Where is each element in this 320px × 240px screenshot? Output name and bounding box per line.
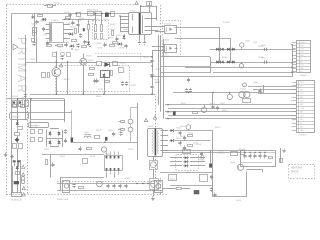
svg-text:+: + <box>123 133 125 135</box>
svg-text:R6305: R6305 <box>96 130 101 132</box>
svg-text:D6203: D6203 <box>222 57 227 59</box>
junction left col <box>17 98 18 99</box>
junction dots mid <box>67 61 68 62</box>
warning triangle T6002 b <box>153 116 156 119</box>
svg-text:C6021: C6021 <box>143 57 148 59</box>
svg-text:R6020: R6020 <box>64 79 69 81</box>
junction dots cap row <box>244 152 245 153</box>
resistor R6045 <box>112 31 114 36</box>
resistor R6033 <box>75 29 77 34</box>
wire y57 <box>97 56 152 58</box>
varistor Z6002 <box>39 130 43 134</box>
transistor Q6104 <box>150 179 159 190</box>
capacitor C6035 <box>83 41 86 43</box>
svg-text:C6033: C6033 <box>70 27 75 29</box>
wire q pair <box>130 108 132 120</box>
svg-text:H+: H+ <box>300 123 302 125</box>
capacitor C6121 <box>200 153 203 155</box>
svg-text:D6300: D6300 <box>44 149 49 151</box>
transistor Q6107 <box>128 119 133 124</box>
svg-text:GND: GND <box>300 104 304 106</box>
svg-text:C6008: C6008 <box>76 20 81 22</box>
wire bottom mid <box>60 177 104 179</box>
svg-text:12: 12 <box>291 123 293 125</box>
resistor input <box>18 127 23 130</box>
ground left mid <box>25 93 27 95</box>
wire T1 stub5 <box>120 31 129 33</box>
wire y94 snubber bottom <box>30 94 155 96</box>
resistor R6022 <box>113 62 118 66</box>
wire y155 left <box>42 154 104 156</box>
svg-text:L6301: L6301 <box>253 82 258 84</box>
svg-text:PC6002: PC6002 <box>223 22 230 24</box>
wire y897 <box>253 89 296 91</box>
capacitor C6103 <box>183 137 186 139</box>
transistor Q6105 <box>97 181 103 187</box>
svg-text:L6201: L6201 <box>253 42 258 44</box>
ground right top <box>284 149 286 151</box>
warning triangle Q6002 <box>60 64 63 67</box>
capacitor C6036 <box>103 44 106 46</box>
components above Q6301 <box>231 152 238 156</box>
transformer T6001 core <box>139 13 141 34</box>
capacitor C6043 <box>32 42 35 44</box>
svg-text:D6034: D6034 <box>119 48 124 50</box>
resistor R6016 <box>48 73 50 78</box>
svg-text:C6045: C6045 <box>74 50 79 52</box>
dashed line bottom sub-circuit <box>57 181 160 183</box>
svg-text:E4001 AC-IN: E4001 AC-IN <box>11 199 23 202</box>
svg-text:10: 10 <box>292 71 294 73</box>
svg-text:Q6301: Q6301 <box>230 162 235 164</box>
wire second rail <box>25 35 27 120</box>
resistor R6004 <box>32 39 35 42</box>
diode pair D6201 D6202 <box>216 48 219 51</box>
resistor R6023 <box>89 74 94 76</box>
svg-text:D6006: D6006 <box>86 56 91 58</box>
dashed box rectifier diodes D6101-D6103 <box>176 155 199 171</box>
wire y862 <box>248 86 296 88</box>
dark box bottom <box>194 190 200 194</box>
wire y1964 <box>212 196 247 198</box>
cap row x265 <box>263 155 266 157</box>
relay contacts cluster <box>13 101 17 107</box>
small box right <box>280 159 283 163</box>
wire above transformer <box>140 6 142 13</box>
wire y1884 <box>162 188 176 190</box>
svg-text:R6025: R6025 <box>96 96 101 98</box>
transistor Q6108 <box>128 127 133 132</box>
transistor Q6201 <box>227 94 232 99</box>
regulator IC6201 double circle <box>239 91 245 97</box>
svg-text:+15V: +15V <box>300 49 305 51</box>
svg-text:S2055: S2055 <box>236 200 241 202</box>
dark component <box>209 163 212 167</box>
wire long y1186 <box>165 118 296 120</box>
svg-text:C6203: C6203 <box>258 46 263 48</box>
svg-text:3: 3 <box>292 48 293 50</box>
dark diamond <box>15 138 20 143</box>
svg-text:T6002: T6002 <box>148 126 153 128</box>
capacitor C6102 <box>178 142 181 144</box>
wire y172 <box>160 172 213 174</box>
resistor R6031 <box>66 17 71 19</box>
svg-text:X6001: X6001 <box>90 156 95 158</box>
capacitor C6015 <box>93 80 96 82</box>
transistor Q6103 <box>150 161 158 170</box>
diode circle D6211 <box>186 125 191 130</box>
svg-text:CN6004: CN6004 <box>300 75 308 77</box>
svg-text:IC6201: IC6201 <box>241 88 247 90</box>
resistor R6041 <box>38 15 43 17</box>
resistor R6001 <box>77 13 81 17</box>
svg-text:9: 9 <box>292 68 293 70</box>
svg-text:C6014: C6014 <box>98 89 103 91</box>
startup resistor R6009 <box>101 25 103 32</box>
socket SK6001 <box>155 181 163 193</box>
capacitor C6211 <box>185 89 188 91</box>
svg-text:STBY: STBY <box>300 82 304 84</box>
diode pair D6207 D6208 <box>227 61 230 64</box>
svg-text:C6307: C6307 <box>128 149 133 151</box>
resistor R6111 <box>79 187 84 189</box>
svg-text:IC PIN: IC PIN <box>42 35 48 37</box>
wire y77 <box>150 76 292 78</box>
junctions x292 <box>291 44 292 45</box>
capacitor C6101 <box>178 132 181 134</box>
capacitor C6115 <box>124 185 127 187</box>
wire bottom buses <box>57 183 155 185</box>
resistor R6214 <box>193 112 198 114</box>
capacitor C6042 <box>35 21 38 23</box>
wire long y1117 <box>165 111 296 113</box>
svg-text:IC6001: IC6001 <box>51 20 59 22</box>
resistor R6005 <box>47 45 52 47</box>
junction y925 <box>229 92 230 93</box>
resistor R6042 <box>33 31 35 36</box>
capacitor C6133 <box>213 194 216 196</box>
fuse F6001 <box>48 5 53 8</box>
bridge diode D6301 <box>49 132 52 135</box>
capacitor C6023 electrolytic <box>150 86 153 88</box>
resistor R6306 <box>87 148 92 150</box>
svg-text:D6307: D6307 <box>108 130 113 132</box>
junction dots bottom <box>136 183 137 184</box>
diode D6101 area <box>171 129 174 132</box>
svg-text:L6201: L6201 <box>245 41 250 43</box>
left col small comps <box>13 105 17 108</box>
transformer T6002 core <box>155 129 157 156</box>
resistor R6112 <box>46 160 48 165</box>
resistor R6017 <box>90 68 95 70</box>
empty box relay area <box>31 101 65 120</box>
wire mid y66 <box>160 66 210 68</box>
wire y722 <box>213 72 296 74</box>
wire y931 <box>258 93 296 95</box>
svg-text:14: 14 <box>291 130 293 132</box>
diode input a <box>16 122 19 125</box>
wire mid y73 <box>160 72 210 74</box>
capacitor C6012 <box>121 82 124 84</box>
resistor R6021 <box>97 62 102 66</box>
AC plug circles <box>21 177 25 181</box>
svg-text:GND: GND <box>300 89 304 91</box>
component pair <box>13 144 17 149</box>
resistor R6046 <box>113 42 118 44</box>
primary section dashed border top <box>6 4 134 6</box>
dashed line AC input box <box>27 99 29 195</box>
capacitor C6213 <box>258 90 261 92</box>
transformer T6001 primary winding <box>132 14 134 16</box>
junction <box>64 19 65 20</box>
warning triangle in3 <box>22 186 25 189</box>
ground input b <box>12 155 14 157</box>
ground below transformer <box>139 40 141 42</box>
diode D6043 <box>123 36 126 39</box>
capacitor C6022 electrolytic <box>150 74 153 76</box>
svg-text:H+: H+ <box>300 58 302 60</box>
resistor R6131 <box>169 175 177 181</box>
arrow symbol left <box>13 44 18 50</box>
wire mid y57 <box>160 56 210 58</box>
svg-text:+: + <box>154 88 156 90</box>
warning triangle in1 <box>22 165 25 168</box>
wire long y1151 <box>168 115 296 117</box>
capacitor C6203 <box>264 48 266 51</box>
diode D6034 <box>119 43 122 46</box>
warning triangle in2 <box>22 173 25 176</box>
capacitor C6011 <box>95 80 98 82</box>
svg-text:SG6001 PWB: SG6001 PWB <box>57 199 69 201</box>
svg-text:7: 7 <box>292 61 293 63</box>
svg-text:C6204: C6204 <box>258 57 263 59</box>
capacitor C6306 <box>78 148 81 150</box>
wire y925 <box>173 92 263 94</box>
wire v36 <box>36 27 38 62</box>
transistor Q6002 big <box>52 68 61 77</box>
svg-text:+5V: +5V <box>300 86 303 88</box>
capacitor C6301 <box>64 130 67 132</box>
wire y153 <box>162 152 240 154</box>
warning triangle T6002 a <box>144 118 147 121</box>
diode D6210 dark <box>173 111 176 115</box>
degauss coil box <box>10 113 29 120</box>
diode D6103 <box>185 156 188 159</box>
wire y671 <box>185 67 296 69</box>
svg-text:5: 5 <box>292 55 293 57</box>
varistor Z6003 <box>31 138 35 142</box>
wire rail2 secondary <box>210 62 296 64</box>
resistor R6303 <box>243 99 251 103</box>
optocoupler PC6002 <box>165 45 177 53</box>
svg-text:DEGAUSS: DEGAUSS <box>11 115 20 118</box>
transformer T6001 secondary winding <box>141 15 143 17</box>
diode D6033 <box>87 42 90 45</box>
dashed box startup resistors <box>93 21 109 40</box>
varistor Z6001 <box>31 130 35 134</box>
diode D6002 <box>83 28 85 31</box>
wire v2634 <box>263 85 265 93</box>
resistor R6301 <box>95 136 100 139</box>
resistor R6102 <box>188 145 193 147</box>
wire T1 stub2 <box>120 19 129 21</box>
IC6002 <box>105 156 123 171</box>
wire mid drops <box>88 30 90 40</box>
capacitor C6002 <box>68 14 71 16</box>
svg-text:D6104: D6104 <box>200 160 205 162</box>
resistor R6012 <box>95 12 102 16</box>
transformer T6002 taps <box>160 130 168 132</box>
thermistor TH6001 <box>15 133 20 136</box>
wire q6201 v <box>229 93 231 95</box>
svg-text:F6001: F6001 <box>54 3 61 5</box>
resistor R6132 <box>177 188 182 190</box>
warning triangle top <box>135 1 138 4</box>
wire v67 <box>67 62 69 94</box>
primary section dashed border left <box>6 5 8 195</box>
svg-text:C6104: C6104 <box>193 143 198 145</box>
svg-text:GND: GND <box>155 82 160 84</box>
junction top rail <box>75 13 76 14</box>
isolation dashed box around optocouplers <box>163 21 181 57</box>
wire stub v56 top <box>56 52 58 63</box>
wire v152 <box>152 51 154 58</box>
capacitor C6305 polar <box>119 132 122 134</box>
dashed box heatsink parts <box>289 165 315 179</box>
wire long y1048 <box>165 104 296 106</box>
svg-text:CN6003: CN6003 <box>299 135 307 137</box>
wire opto2 right <box>175 38 231 40</box>
wire long y1082 <box>168 108 296 110</box>
svg-text:R6202: R6202 <box>220 103 225 105</box>
component lower <box>16 172 20 175</box>
choke L6001 <box>84 136 91 138</box>
IC6001 PWM controller <box>50 23 64 43</box>
capacitor C6113 <box>112 185 115 187</box>
svg-text:IC6002: IC6002 <box>105 154 111 156</box>
varistor Z6004 <box>39 138 43 142</box>
capacitor C6214 <box>211 106 214 108</box>
svg-text:RL6001: RL6001 <box>12 96 18 98</box>
svg-text:R6002 R6012: R6002 R6012 <box>87 9 99 11</box>
capacitor C6132 <box>210 188 213 190</box>
capacitor C6021 electrolytic <box>150 60 153 62</box>
svg-text:PC6001: PC6001 <box>165 24 172 26</box>
main cap C6303 <box>71 138 74 143</box>
svg-text:GND: GND <box>300 119 304 121</box>
svg-text:+: + <box>116 134 118 136</box>
capacitor C6034 <box>79 34 82 36</box>
transformer T6002 outline <box>148 129 163 157</box>
svg-text:ABL: ABL <box>300 60 303 63</box>
svg-text:R6043: R6043 <box>64 42 69 44</box>
transistor Q6106 <box>101 147 106 152</box>
wire v2106 <box>210 150 212 163</box>
svg-text:C6022: C6022 <box>155 69 160 71</box>
diode pair D6205 D6206 <box>216 61 219 64</box>
capacitor C6302 <box>64 140 67 142</box>
resistor R6015 <box>42 73 46 78</box>
wire sec verticals <box>158 35 160 105</box>
resistor R6044 <box>82 46 87 48</box>
resistor R6113 <box>121 121 125 123</box>
IC6002 pins <box>106 152 108 156</box>
wire v2806 <box>280 148 282 163</box>
wire v644 <box>64 99 66 122</box>
wire v2294 <box>230 39 232 50</box>
wire y1694 <box>247 169 262 171</box>
svg-text:R6131: R6131 <box>170 179 175 181</box>
wire input col <box>17 99 19 121</box>
wire relay drop2 <box>114 175 116 178</box>
wire v1496 <box>149 2 151 13</box>
capacitor C6114 <box>118 185 121 187</box>
transformer T6001 right taps <box>145 18 158 20</box>
svg-text:+15V: +15V <box>300 101 304 103</box>
wire y62b <box>80 62 96 64</box>
wire T1 stub4 <box>120 27 129 29</box>
svg-text:C6002: C6002 <box>64 12 69 14</box>
junction y94 <box>56 93 57 94</box>
svg-text:D6101: D6101 <box>176 128 181 130</box>
svg-text:IC6002: IC6002 <box>125 178 131 180</box>
svg-text:PC6002: PC6002 <box>163 40 170 42</box>
capacitor C6215 <box>216 107 219 109</box>
junctions diode rows <box>219 49 220 50</box>
wire t2 out <box>175 130 213 132</box>
svg-text:8: 8 <box>292 65 293 67</box>
transformer T6001 outline <box>129 13 152 35</box>
wire v120 <box>120 16 122 32</box>
capacitor C6041 <box>31 16 34 18</box>
wire v2239 <box>219 28 221 49</box>
capacitor C6204 <box>264 60 266 63</box>
wire diode row verticals <box>219 49 221 62</box>
capacitor jumper C6210 <box>187 79 190 81</box>
capacitor C6112 <box>106 185 109 187</box>
diode D6102 area <box>171 139 174 142</box>
svg-text:11: 11 <box>291 119 293 121</box>
resistor R6002 <box>88 12 94 16</box>
connector CN6004 <box>297 41 311 73</box>
svg-text:CIRCUIT: CIRCUIT <box>218 153 226 155</box>
optocoupler PC6001 <box>165 26 177 34</box>
circled wire number 2 <box>240 43 244 47</box>
capacitor C6044 <box>64 44 67 46</box>
primary section dashed border bottom <box>6 194 168 196</box>
capacitor C6045 <box>76 44 79 46</box>
svg-text:2: 2 <box>292 45 293 47</box>
transistor Q6202 <box>201 107 206 112</box>
wire opto1 left <box>155 26 165 28</box>
svg-text:R6009: R6009 <box>103 19 108 21</box>
svg-text:+115V: +115V <box>300 108 304 110</box>
junction dots longwires <box>167 104 168 105</box>
wire lower col <box>20 160 22 193</box>
dashed h top mosfet <box>95 53 141 55</box>
IC6001 pins left <box>46 24 50 26</box>
wire cluster <box>78 19 80 22</box>
svg-text:D6102: D6102 <box>176 138 181 140</box>
svg-text:1: 1 <box>292 42 293 44</box>
primary section dashed border right <box>160 5 162 96</box>
svg-text:R6014: R6014 <box>123 29 128 31</box>
svg-text:C6042: C6042 <box>31 24 36 26</box>
transistor Q6301 <box>237 164 243 170</box>
svg-text:ISOLATE: ISOLATE <box>163 55 171 58</box>
bridge wires <box>50 128 59 130</box>
transistor Q6001 <box>80 58 87 65</box>
